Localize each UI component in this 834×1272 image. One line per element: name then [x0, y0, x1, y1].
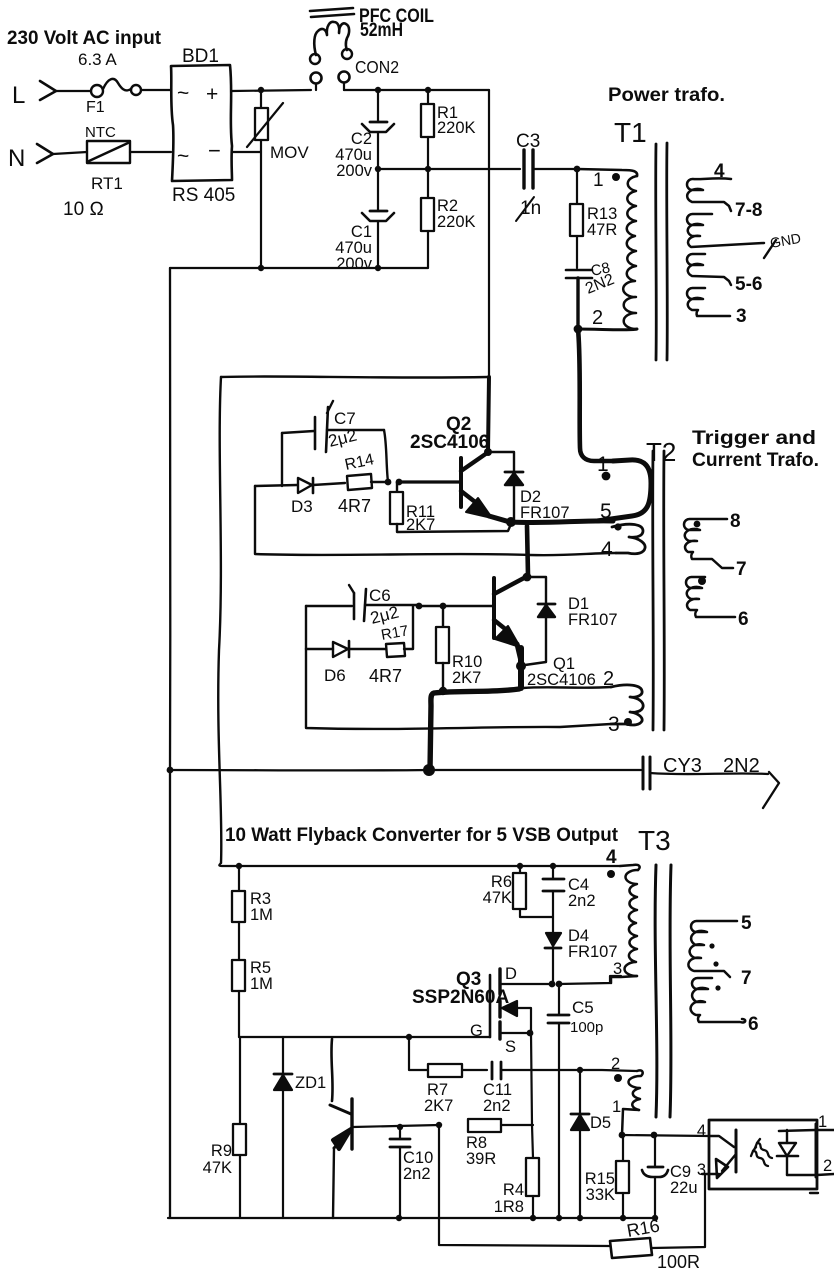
resistor R13 47R	[570, 169, 617, 268]
capacitor C7 2u2	[282, 401, 384, 452]
svg-text:39R: 39R	[466, 1150, 496, 1168]
svg-text:2n2: 2n2	[483, 1097, 511, 1115]
capacitor C6 2u2	[306, 585, 419, 628]
label Power trafo.	[608, 85, 725, 106]
svg-text:5: 5	[600, 500, 612, 523]
svg-text:33K: 33K	[586, 1186, 615, 1204]
wire C6 left vertical	[305, 606, 307, 649]
svg-text:1M: 1M	[250, 906, 273, 924]
node junction Q1 emitter	[516, 648, 526, 688]
resistor R16 100R	[439, 1125, 705, 1272]
node L (line input)	[12, 81, 56, 109]
wire drain node to T3 pin3	[559, 976, 621, 984]
optocoupler LED	[777, 1130, 817, 1175]
svg-text:Current Trafo.: Current Trafo.	[692, 450, 819, 471]
label Trigger and Current Trafo.	[692, 428, 819, 471]
transformer T3 designator	[638, 825, 671, 856]
wire BD1 + output to top rail	[232, 90, 311, 91]
wire thick node to T2 pin5	[511, 521, 613, 523]
svg-text:1: 1	[612, 1098, 621, 1116]
svg-text:10 Ω: 10 Ω	[63, 199, 104, 220]
svg-text:47K: 47K	[203, 1159, 232, 1177]
transformer T2 winding pins 8-7	[684, 511, 747, 580]
svg-text:7-8: 7-8	[735, 200, 762, 221]
transistor Q1 2SC4106	[494, 578, 596, 689]
transformer T2 core	[653, 451, 665, 730]
transformer T3 primary winding pins 4-3	[606, 847, 640, 983]
svg-text:6: 6	[748, 1014, 759, 1035]
transformer T3 secondary winding 7-6	[691, 978, 759, 1035]
svg-text:2K7: 2K7	[424, 1097, 453, 1115]
svg-text:G: G	[470, 1022, 483, 1040]
wire oscillator box top	[221, 376, 488, 377]
svg-text:RS 405: RS 405	[172, 185, 235, 206]
resistor R17 4R7	[369, 606, 413, 686]
svg-text:T1: T1	[614, 117, 647, 148]
wire N to NTC	[53, 152, 87, 154]
label 10 Watt Flyback Converter for 5 VSB Output	[225, 825, 619, 846]
node junction R1 top	[425, 87, 431, 93]
wire Q4 base to R8/C10 node	[353, 1125, 439, 1127]
wire feedback rail pin1 to opto pin4	[619, 1132, 708, 1139]
svg-text:FR107: FR107	[568, 611, 618, 629]
svg-text:CY3: CY3	[663, 755, 702, 777]
svg-text:2n2: 2n2	[403, 1165, 431, 1183]
svg-text:CON2: CON2	[355, 57, 399, 77]
svg-text:FR107: FR107	[568, 943, 618, 961]
svg-text:~: ~	[177, 145, 189, 168]
resistor R9 47K	[203, 1037, 246, 1218]
node junction midpoint	[375, 166, 431, 172]
resistor R1 220K	[421, 90, 476, 169]
transformer T2 winding pins 1-5 (big loop)	[597, 453, 651, 523]
svg-text:ZD1: ZD1	[295, 1074, 326, 1092]
svg-text:200v: 200v	[336, 255, 373, 273]
svg-text:1R8: 1R8	[494, 1198, 524, 1216]
svg-text:T2: T2	[646, 437, 676, 467]
svg-text:D6: D6	[324, 666, 346, 685]
node junction Q2 collector	[484, 448, 492, 456]
wire base node to Q2 base	[399, 480, 461, 483]
wire C7 left vertical	[281, 433, 283, 486]
svg-text:2K7: 2K7	[406, 516, 435, 534]
svg-text:4: 4	[606, 847, 617, 868]
capacitor C2 470u 200v	[335, 90, 394, 180]
svg-text:Power trafo.: Power trafo.	[608, 85, 725, 106]
svg-text:100p: 100p	[570, 1019, 603, 1036]
wire gate rail	[239, 1036, 490, 1038]
svg-text:R9: R9	[211, 1142, 232, 1160]
resistor R5 1M	[232, 959, 273, 1037]
wire bottom ground rail	[168, 1215, 658, 1221]
transformer T2 winding pins 2-3	[603, 668, 643, 736]
polarity dash below opto	[810, 1192, 818, 1194]
node N (neutral input)	[8, 144, 53, 172]
svg-text:D5: D5	[590, 1114, 611, 1132]
varistor MOV	[247, 90, 309, 268]
wire CON2 to right rail corner	[344, 89, 489, 91]
svg-text:1: 1	[818, 1113, 827, 1131]
label 230 Volt AC input	[7, 28, 162, 49]
resistor R7 2K7	[409, 1037, 487, 1115]
resistor R15 33K	[585, 1135, 629, 1218]
wire thick Q1 emitter left and down to mid rail	[430, 689, 519, 770]
node junction C3 right / T1 pin1	[574, 166, 581, 173]
wire NTC to BD1	[130, 151, 171, 153]
node junction left rail / mid rail	[167, 767, 174, 774]
bridge rectifier BD1	[171, 46, 235, 206]
diode D4 FR107	[545, 927, 618, 984]
svg-text:2K7: 2K7	[452, 669, 481, 687]
svg-text:5: 5	[741, 913, 752, 934]
wire oscillator box left rail	[218, 377, 221, 863]
svg-text:NTC: NTC	[85, 124, 116, 141]
capacitor C5 100p	[548, 984, 603, 1218]
node junction R8 left / R16 branch	[436, 1122, 442, 1128]
capacitor C10 2n2	[390, 1124, 433, 1218]
wire BD1 - output to MOV branch	[232, 151, 261, 153]
node junction Q2 emitter / D2 / T2 pin5	[506, 517, 516, 527]
resistor R14 4R7	[338, 451, 388, 516]
svg-text:4R7: 4R7	[369, 666, 402, 686]
diode D3	[255, 478, 345, 516]
svg-text:8: 8	[730, 511, 741, 532]
svg-text:C3: C3	[516, 131, 540, 152]
node junction C2 top	[375, 87, 381, 93]
svg-text:S: S	[505, 1038, 516, 1056]
svg-text:2: 2	[823, 1157, 832, 1175]
svg-text:4: 4	[714, 161, 725, 182]
wire Q1 emitter to T2 pin2	[523, 687, 611, 688]
svg-text:200v: 200v	[336, 162, 373, 180]
svg-text:3: 3	[613, 960, 622, 978]
svg-text:100R: 100R	[657, 1252, 700, 1272]
node junction R7 branch on gate rail	[406, 1034, 412, 1040]
transformer T1 secondary winding 7-8 to GND	[687, 214, 764, 247]
svg-text:SSP2N60A: SSP2N60A	[412, 987, 509, 1008]
node junction Q2 base branch	[385, 479, 403, 486]
transformer T2 winding pins 5-4	[601, 523, 645, 561]
svg-text:2SC4106: 2SC4106	[410, 432, 489, 453]
node junction R10 bottom on emitter wire	[439, 687, 447, 695]
svg-text:4: 4	[697, 1122, 706, 1140]
node junction MOV top	[258, 87, 264, 93]
thermistor RT1 (NTC)	[85, 124, 130, 193]
transformer T2 winding pins 7-6	[686, 577, 749, 630]
resistor R11 2K7	[390, 482, 511, 534]
capacitor C4 2n2	[543, 866, 596, 933]
inductor PFC COIL 52mH	[310, 6, 434, 64]
svg-text:220K: 220K	[437, 119, 476, 137]
wire mid rail C1/C2 midpoint to C3	[378, 168, 520, 170]
svg-text:6.3 A: 6.3 A	[78, 50, 117, 69]
transistor Q2 2SC4106	[410, 414, 510, 522]
wire C7 right vertical	[384, 430, 388, 482]
wire L to fuse	[56, 90, 91, 92]
svg-text:3: 3	[697, 1161, 706, 1179]
svg-text:D: D	[505, 965, 517, 983]
wire right vertical rail down to Q2 collector	[488, 90, 489, 452]
svg-text:+: +	[206, 83, 218, 106]
svg-text:7: 7	[736, 559, 747, 580]
svg-text:F1: F1	[86, 99, 105, 116]
svg-text:N: N	[8, 145, 25, 172]
svg-text:4R7: 4R7	[338, 496, 371, 516]
svg-text:7: 7	[741, 968, 752, 989]
wire C11 to T3 pin2	[580, 1070, 637, 1071]
svg-text:47K: 47K	[483, 889, 512, 907]
capacitor C3 1n	[516, 131, 577, 221]
connector CON2	[311, 57, 400, 90]
transformer T1 primary winding pins 1-2	[577, 169, 637, 330]
label 6.3 A (fuse rating)	[78, 50, 117, 69]
svg-text:52mH: 52mH	[360, 20, 403, 41]
svg-text:5-6: 5-6	[735, 274, 762, 295]
capacitor C8 2N2	[566, 259, 617, 329]
svg-text:2: 2	[592, 307, 603, 329]
wire opto pin1 out	[815, 1129, 834, 1131]
fuse F1	[86, 79, 141, 116]
wire thick node down to Q1 collector	[527, 526, 528, 575]
svg-text:RT1: RT1	[91, 174, 123, 193]
svg-text:1M: 1M	[250, 975, 273, 993]
wire mid rail to CY3	[170, 769, 641, 772]
svg-text:C5: C5	[572, 998, 594, 1017]
transistor Q4 (protection BJT)	[330, 1039, 352, 1218]
wire source down to R4	[531, 1033, 533, 1158]
wire base node to Q1 base	[419, 605, 494, 608]
svg-text:FR107: FR107	[520, 504, 570, 522]
transformer T1 secondary winding pin 4 to 7-8	[687, 161, 762, 221]
optocoupler U1	[697, 1113, 832, 1189]
wire opto pin2 out	[817, 1174, 834, 1175]
svg-text:BD1: BD1	[182, 46, 219, 67]
transformer T3 secondary winding 5-7	[688, 913, 752, 989]
svg-text:2n2: 2n2	[568, 892, 596, 910]
wire left outer rail	[169, 268, 172, 1218]
node junction drain	[549, 981, 563, 988]
capacitor CY3 2N2	[643, 755, 779, 808]
resistor R10 2K7	[436, 606, 482, 690]
svg-text:−: −	[208, 138, 221, 163]
wire flyback top rail	[219, 863, 620, 866]
svg-text:2N2: 2N2	[723, 755, 760, 777]
capacitor C1 470u 200v	[335, 169, 394, 273]
svg-text:10 Watt Flyback Converter for: 10 Watt Flyback Converter for 5 VSB Outp…	[225, 825, 619, 846]
optocoupler light arrows	[751, 1139, 772, 1166]
svg-text:~: ~	[177, 82, 189, 105]
diode D5	[571, 1067, 611, 1218]
svg-text:C6: C6	[369, 586, 391, 605]
node junction big blob mid rail	[423, 764, 435, 776]
svg-text:T3: T3	[638, 825, 671, 856]
mosfet Q3 SSP2N60A	[412, 965, 552, 1056]
svg-text:4: 4	[601, 538, 613, 561]
wire fuse to BD1	[141, 89, 171, 91]
ground GND tap	[764, 230, 802, 258]
node junction T1 pin2 / C8	[574, 325, 583, 334]
diode D1 FR107	[525, 577, 618, 665]
svg-text:220K: 220K	[437, 213, 476, 231]
resistor R6 47K	[483, 866, 553, 917]
svg-text:230 Volt AC input: 230 Volt AC input	[7, 28, 162, 49]
transformer T1 core	[656, 143, 668, 360]
svg-text:MOV: MOV	[270, 143, 309, 162]
optocoupler phototransistor	[702, 1130, 736, 1178]
transformer T1 designator	[614, 117, 647, 148]
transformer T3 aux winding pins 2-1	[611, 1055, 643, 1135]
svg-text:D3: D3	[291, 497, 313, 516]
node junction Q1 collector	[523, 573, 532, 582]
capacitor C11 2n2	[483, 1062, 580, 1115]
resistor R4 1R8	[494, 1158, 539, 1218]
svg-text:Trigger and: Trigger and	[692, 428, 816, 449]
node junctions on top rail	[236, 863, 556, 869]
transformer T2 designator	[646, 437, 676, 467]
svg-text:1: 1	[593, 170, 604, 191]
transformer T3 core	[655, 865, 671, 1117]
svg-text:47R: 47R	[587, 221, 617, 239]
svg-text:22u: 22u	[670, 1179, 698, 1197]
svg-text:L: L	[12, 82, 25, 109]
node junction bottom input rail	[258, 265, 381, 271]
transformer T1 secondary winding GND to 5-6	[687, 254, 762, 295]
wire Q2 loop bottom from T2 pin4	[255, 486, 616, 555]
capacitor C9 22u	[642, 1135, 698, 1218]
resistor R8 39R	[466, 1119, 533, 1168]
svg-text:3: 3	[736, 306, 747, 327]
transformer T1 secondary winding 5-6 to 3	[687, 288, 747, 327]
label 10 ohm	[63, 199, 104, 220]
diode D2 FR107	[488, 452, 570, 522]
node junction Q1 base branch	[416, 603, 447, 610]
zener diode ZD1	[274, 1037, 326, 1218]
svg-text:6: 6	[738, 609, 749, 630]
diode D6	[306, 641, 386, 685]
svg-text:R4: R4	[503, 1181, 524, 1199]
resistor R3 1M	[232, 866, 273, 960]
wire Q1 loop bottom from T2 pin3	[306, 649, 611, 729]
resistor R2 220K	[170, 169, 476, 268]
wire thick T1 pin2 down to T2 pin1	[578, 329, 612, 461]
